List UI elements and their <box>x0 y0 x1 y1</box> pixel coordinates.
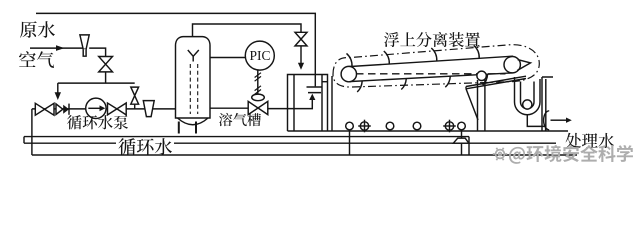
channel: return pipe bottom line <box>24 142 556 144</box>
chamber: air release chamber walls <box>288 75 328 132</box>
flow meter FM1 (funnel on air line) <box>80 35 89 56</box>
pump P1 (circulating water pump) <box>86 98 106 118</box>
impingement plates in chamber <box>307 87 323 93</box>
label: flotation separation device 浮上分离装置 <box>384 32 480 47</box>
inclined ramp plates <box>466 76 526 120</box>
watermark logo <box>493 148 507 160</box>
saturator bottom dome <box>178 118 209 125</box>
saturator internal spray Y <box>188 50 199 62</box>
tank: flotation tank left wall <box>331 76 333 131</box>
diffuser nozzles on tank floor <box>346 120 466 133</box>
instrument PIC (pressure controller) <box>245 41 274 70</box>
label: circulating water 循环水 <box>119 138 172 155</box>
check valve CV1 <box>56 104 63 115</box>
label backing for 循环水 <box>116 138 174 153</box>
belt lines <box>349 56 514 66</box>
valve V5 (raw water inlet, vertical bowtie) <box>295 32 307 46</box>
drain stem from first nozzle to recycle line <box>349 130 351 156</box>
label: raw water 原水 <box>20 21 55 38</box>
tank: saturator (溶气槽) body <box>176 37 211 118</box>
pipe: lower recycle line <box>32 154 577 156</box>
pipe: saturator top to inlet valve V5 <box>193 24 302 37</box>
discharge weir curve <box>544 111 550 130</box>
svg-text:PIC: PIC <box>249 48 270 63</box>
pipe: V5 down-arrow into chamber <box>300 46 302 64</box>
drain stem from nozzle through trapezoid <box>461 130 463 155</box>
label: saturator 溶气槽 <box>219 113 261 126</box>
air drop into pump suction with arrowhead <box>57 83 59 93</box>
skimmer casing (chain line stadium) <box>333 45 539 87</box>
outlet bell circle <box>477 71 486 80</box>
injector/funnel on discharge line <box>143 101 154 117</box>
signal line PIC to control valve <box>257 70 259 94</box>
valve V3 (vertical bowtie on drop to discharge) <box>134 104 136 109</box>
channel: left end cap <box>23 137 25 144</box>
pipe: air inlet line <box>30 47 84 49</box>
belt wedge at right pulley <box>517 60 530 71</box>
label: air 空气 <box>19 51 54 68</box>
arrowhead on air line <box>56 45 65 51</box>
drop: channel to recycle line at x469 <box>468 137 470 155</box>
pipe: left drop to recycle line <box>31 109 33 155</box>
valve V1 (suction bowtie) <box>35 103 54 115</box>
pulley left <box>341 66 356 81</box>
pipe: air header <box>58 82 135 84</box>
valve V4 (discharge bowtie) <box>108 103 127 115</box>
channel: return pipe top line <box>24 136 469 138</box>
saturator internal dashed streams <box>189 64 191 114</box>
U-tube float circle <box>523 100 532 109</box>
U-tube inner <box>521 82 535 109</box>
trapezoid fitting on channel <box>453 138 469 143</box>
U-tube outer <box>515 77 541 115</box>
pipe: pump suction & discharge line <box>32 108 176 110</box>
label: treated water 处理水 <box>566 133 614 148</box>
tank: flotation tank floor <box>288 130 569 132</box>
control valve PV1 (bowtie) <box>248 101 268 114</box>
valve V2 (air, vertical bowtie) <box>99 57 113 72</box>
pipe: saturator outlet to control valve <box>210 107 248 109</box>
treated water arrow <box>551 119 567 121</box>
belt flights (scrapers) <box>347 45 488 92</box>
water level dashed line <box>356 73 506 75</box>
control valve actuator <box>252 94 265 101</box>
label: circulating water pump 循环水泵 <box>67 115 128 129</box>
watermark text @环境安全科学 <box>509 145 633 164</box>
U-tube stem to floor <box>527 115 545 131</box>
pipe: control valve to release chamber riser with up arrow <box>268 100 313 109</box>
pulley right <box>504 56 520 72</box>
tank: right wall (double) with lip <box>542 77 553 131</box>
riser pipe from outlet bell <box>477 80 479 131</box>
pipe: air line to valve <box>89 48 105 83</box>
pipe: saturator to PIC <box>210 57 245 59</box>
pipe: raw water top rail <box>36 13 315 86</box>
saturator legs <box>178 122 180 134</box>
